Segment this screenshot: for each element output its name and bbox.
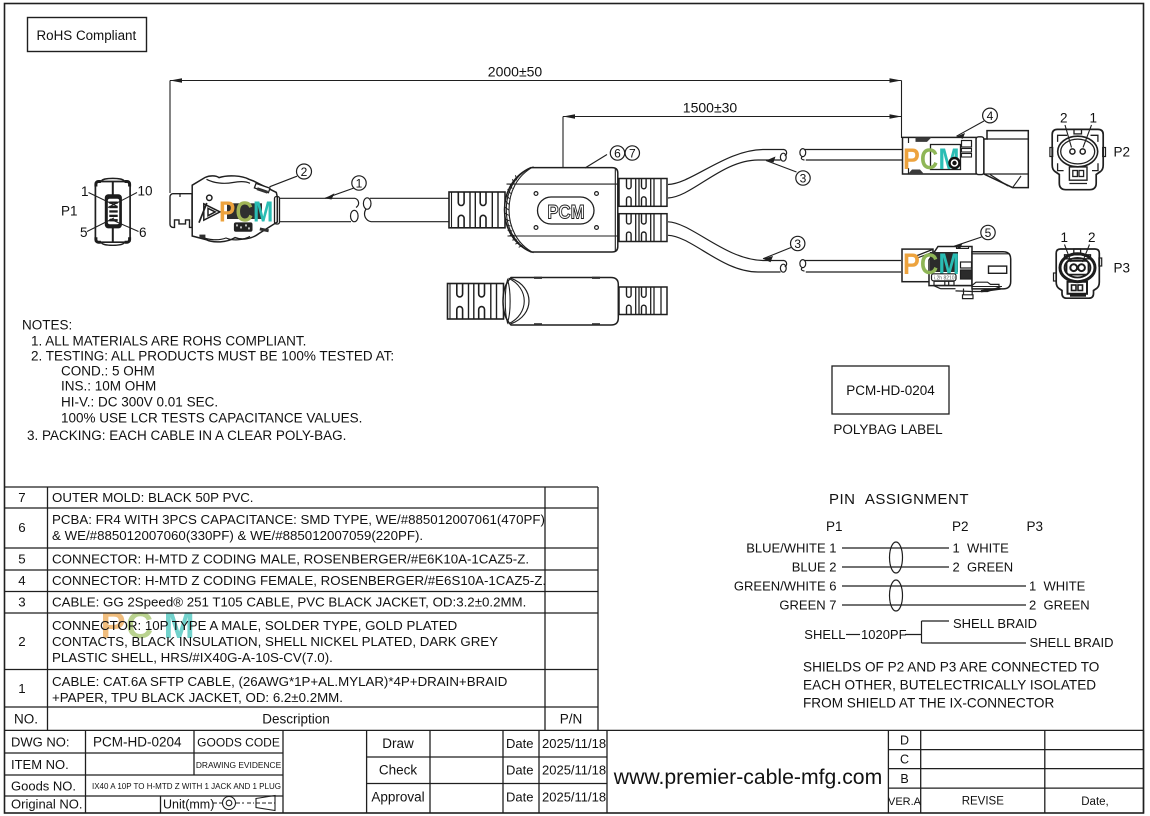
P3 face top bar [1065,255,1091,259]
svg-text:4: 4 [987,109,994,123]
svg-text:1: 1 [1061,230,1069,245]
IX end cap [275,197,280,225]
BOM row 5 [18,552,529,567]
svg-text:1020PF: 1020PF [861,627,907,642]
svg-text:POLYBAG LABEL: POLYBAG LABEL [833,422,943,437]
BOM row 1 [18,674,507,705]
BOM row 7 [18,490,253,505]
P3 bottom latch [934,281,1001,298]
svg-text:1. ALL MATERIALS ARE ROHS COMP: 1. ALL MATERIALS ARE ROHS COMPLIANT. [31,334,306,349]
side view body [503,278,618,326]
P3 face inner window with pins [1067,261,1089,275]
top relief [619,179,667,207]
side view right relief [619,287,667,315]
IX main body [192,176,277,242]
svg-text:BLUE 2: BLUE 2 [792,560,837,575]
svg-text:B: B [900,772,908,786]
svg-text:P1: P1 [61,204,78,219]
svg-text:2 GREEN: 2 GREEN [1029,598,1090,613]
top/bottom edge ticks [534,277,542,279]
svg-text:Date: Date [506,790,533,805]
IX top latch wave [207,179,251,183]
svg-text:NO.: NO. [14,712,38,727]
P3 face black ring [1060,254,1095,282]
wire lower right [371,221,449,223]
RoHS Compliant box [28,18,147,52]
P1 black insert [105,194,122,228]
callout 1 [325,176,366,200]
bottom relief [619,214,667,242]
P3 face outer shell [1056,249,1099,298]
svg-text:3: 3 [800,172,807,186]
BOM table grid [5,487,599,730]
svg-text:CABLE: GG 2Speed® 251 T105 CAB: CABLE: GG 2Speed® 251 T105 CABLE, PVC BL… [52,595,526,610]
svg-text:+PAPER, TPU BLACK JACKET, OD:: +PAPER, TPU BLACK JACKET, OD: 6.2±0.2MM. [52,690,343,705]
svg-text:2: 2 [18,634,25,649]
svg-text:PLASTIC SHELL, HRS/#IX40G-A-10: PLASTIC SHELL, HRS/#IX40G-A-10S-CV(7.0). [52,650,333,665]
svg-text:NOTES:: NOTES: [22,318,72,333]
PCM logo on IX [219,196,273,228]
small tick bottom-right [260,227,269,232]
svg-text:SHIELDS OF P2 AND P3 ARE CONNE: SHIELDS OF P2 AND P3 ARE CONNECTED TO [803,660,1099,675]
svg-text:Date: Date [506,736,533,751]
P3 small rects [961,262,972,268]
wire BLUE 2 to P2-2 GREEN [792,560,1014,575]
dark code patch behind PCM [227,203,262,219]
twist symbol pair 2 [890,580,903,611]
svg-text:GOODS CODE: GOODS CODE [197,736,280,750]
svg-text:100% USE LCR TESTS CAPACITANCE: 100% USE LCR TESTS CAPACITANCE VALUES. [61,411,362,426]
svg-text:1500±30: 1500±30 [683,100,738,116]
svg-text:10: 10 [138,184,153,199]
svg-text:GREEN/WHITE 6: GREEN/WHITE 6 [734,579,837,594]
svg-text:CONNECTOR: 10P TYPE A MALE, SO: CONNECTOR: 10P TYPE A MALE, SOLDER TYPE,… [52,618,457,633]
P2 small rects [962,141,972,148]
svg-text:GREEN 7: GREEN 7 [779,598,836,613]
IX bottom latch wave [200,236,250,239]
callout 4 [957,108,998,139]
P2 fakra ring detail [948,157,960,169]
svg-text:Date,: Date, [1081,796,1109,808]
svg-text:FROM SHIELD AT THE IX-CONNECTO: FROM SHIELD AT THE IX-CONNECTOR [803,696,1054,711]
P2 face side tabs [1050,148,1053,157]
P2 face outer shell [1052,129,1103,189]
screw dots [534,192,538,196]
svg-text:6: 6 [614,147,621,161]
P2 transition ring [976,137,984,175]
PCM logo on P3 [903,247,959,281]
svg-text:www.premier-cable-mfg.com: www.premier-cable-mfg.com [613,766,882,789]
svg-text:D: D [900,734,909,748]
BOM row 2 [18,618,498,665]
P2 inner mold line [931,145,961,170]
svg-text:1: 1 [81,184,89,199]
dimension 1500±30 [563,117,902,169]
svg-text:Approval: Approval [371,790,424,805]
svg-text:1 WHITE: 1 WHITE [1029,579,1086,594]
svg-text:INS.: 10M OHM: INS.: 10M OHM [61,379,156,394]
svg-text:P: P [903,247,920,281]
svg-text:2025/11/18: 2025/11/18 [542,736,606,751]
pin assignment diagram [826,491,1043,534]
svg-text:P/N: P/N [560,712,583,727]
svg-text:CONNECTOR: H-MTD Z CODING FEMA: CONNECTOR: H-MTD Z CODING FEMALE, ROSENB… [52,573,546,588]
svg-text:2: 2 [1060,111,1068,126]
wire GREEN/WHITE 6 to P3-1 WHITE [734,579,1086,594]
svg-text:1: 1 [18,681,25,696]
svg-text:6: 6 [18,520,25,535]
title block left labels [11,735,282,812]
svg-text:RoHS Compliant: RoHS Compliant [37,28,137,43]
svg-text:3: 3 [794,237,801,251]
svg-text:Draw: Draw [382,736,414,751]
svg-text:PCM-HD-0204: PCM-HD-0204 [846,383,935,398]
cable break left [355,198,359,207]
svg-text:3. PACKING: EACH CABLE IN A CL: 3. PACKING: EACH CABLE IN A CLEAR POLY-B… [27,428,346,443]
svg-text:SHELL BRAID: SHELL BRAID [953,616,1037,631]
P1 outer shell [95,182,130,243]
truncated cone symbol [247,796,275,811]
dome seam arc with knurl hatch [506,168,529,251]
P2 bottom key [1069,167,1087,180]
svg-text:C: C [900,753,909,767]
svg-text:SHELL BRAID: SHELL BRAID [1030,635,1114,650]
svg-text:C: C [920,142,938,176]
callout 6 7 [585,146,640,168]
P3 housing [929,247,972,286]
svg-text:5: 5 [985,226,992,240]
twist symbol pair 1 [890,542,903,573]
svg-text:SHELL: SHELL [804,627,845,642]
P2 housing [984,131,1028,188]
dimension 2000±50 [170,81,902,194]
svg-text:3: 3 [18,595,25,610]
callout 5 [954,225,995,249]
wire lower [280,221,352,223]
revision table labels [888,734,1109,809]
P3 label plate [932,274,957,281]
P3 face bottom key [1068,282,1088,294]
svg-text:Original NO.: Original NO. [11,797,83,812]
draw/check/approval labels [371,736,606,805]
P3 overmold boot [902,249,933,282]
svg-text:2025/11/18: 2025/11/18 [542,763,606,778]
svg-text:BLUE/WHITE 1: BLUE/WHITE 1 [746,541,836,556]
svg-text:i.2h 8210: i.2h 8210 [934,276,955,282]
shields note [803,660,1099,711]
svg-text:CABLE: CAT.6A SFTP CABLE, (26A: CABLE: CAT.6A SFTP CABLE, (26AWG*1P+AL.M… [52,674,507,689]
svg-text:6: 6 [139,225,147,240]
svg-text:EACH OTHER, BUTELECTRICALLY IS: EACH OTHER, BUTELECTRICALLY ISOLATED [803,678,1096,693]
P2 face ellipse ring [1058,136,1098,167]
wire GREEN 7 to P3-2 GREEN [779,598,1089,613]
callout 3 bottom [763,236,805,262]
svg-text:VER.A: VER.A [888,796,922,808]
shell to shell braid net [804,616,1113,650]
BOM watermark PCM [101,604,195,646]
svg-text:1: 1 [356,177,363,191]
BOM header row [14,712,582,727]
svg-text:DWG NO:: DWG NO: [11,735,70,750]
IX latch tab slot [254,183,270,192]
notes block [22,318,394,443]
P3 plug [972,252,1011,289]
svg-text:5: 5 [80,225,88,240]
svg-text:2: 2 [1088,230,1096,245]
svg-text:Unit(mm): Unit(mm) [163,798,214,812]
P2 pins [1070,149,1075,154]
svg-text:Description: Description [262,712,330,727]
svg-text:COND.: 5 OHM: COND.: 5 OHM [61,364,155,379]
side view left relief [448,284,504,320]
P2 face corner blocks [1058,135,1068,142]
svg-text:4: 4 [18,573,25,588]
third angle projection symbol [213,797,244,810]
wire upper [280,197,356,199]
BOM row 3 [18,595,526,610]
svg-text:1 WHITE: 1 WHITE [953,541,1010,556]
svg-text:DRAWING EVIDENCE: DRAWING EVIDENCE [196,760,282,770]
BOM row 4 [18,573,546,588]
svg-text:P2: P2 [1114,145,1131,160]
svg-text:CONTACTS, BLACK INSULATION, SH: CONTACTS, BLACK INSULATION, SHELL NICKEL… [52,634,498,649]
svg-text:PCM: PCM [547,201,584,222]
svg-text:2: 2 [301,165,308,179]
P1 top tab [102,178,125,181]
svg-text:7: 7 [18,490,25,505]
svg-text:P2: P2 [952,519,969,534]
svg-text:CONNECTOR: H-MTD Z CODING MALE: CONNECTOR: H-MTD Z CODING MALE, ROSENBER… [52,552,529,567]
svg-text:P3: P3 [1027,519,1044,534]
svg-text:Check: Check [379,763,418,778]
svg-text:P3: P3 [1114,261,1131,276]
small mark bottom-left [199,235,205,239]
PCM oval badge [538,197,595,224]
svg-text:ITEM NO.: ITEM NO. [11,757,69,772]
svg-text:5: 5 [18,552,25,567]
svg-text:IX40 A 10P TO H-MTD Z WITH 1 J: IX40 A 10P TO H-MTD Z WITH 1 JACK AND 1 … [92,782,281,791]
svg-text:P: P [219,196,235,228]
cable break right [363,198,371,209]
svg-text:OUTER MOLD: BLACK 50P PVC.: OUTER MOLD: BLACK 50P PVC. [52,490,254,505]
ix logo [207,195,212,200]
svg-text:7: 7 [629,147,636,161]
P3 face top key [1074,249,1081,253]
P1 bottom tab [102,243,125,246]
svg-text:2025/11/18: 2025/11/18 [542,790,606,805]
svg-text:2 GREEN: 2 GREEN [953,560,1014,575]
svg-text:2000±50: 2000±50 [488,64,543,80]
parting lines [507,183,618,185]
IX plug interface [170,194,192,228]
polybag label box PCM-HD-0204 [832,366,949,437]
svg-text:2. TESTING: ALL PRODUCTS MUST: 2. TESTING: ALL PRODUCTS MUST BE 100% TE… [31,349,394,364]
P3 dark window [930,252,958,272]
P2 overmold [903,137,977,174]
title block grid [5,730,1144,812]
svg-text:M: M [253,196,273,228]
svg-text:HI-V.: DC 300V 0.01 SEC.: HI-V.: DC 300V 0.01 SEC. [61,395,218,410]
P1 center slot lines [112,182,114,196]
svg-text:1: 1 [1090,111,1098,126]
wire BLUE/WHITE 1 to P2-1 WHITE [746,541,1009,556]
svg-text:P1: P1 [826,519,843,534]
svg-text:PIN ASSIGNMENT: PIN ASSIGNMENT [829,491,969,508]
P2 face top key notch [1074,129,1082,134]
svg-text:P: P [903,142,920,176]
svg-text:Goods NO.: Goods NO. [11,779,76,794]
PCM logo on P2 [903,142,959,176]
svg-text:PCBA: FR4 WITH 3PCS CAPACITANC: PCBA: FR4 WITH 3PCS CAPACITANCE: SMD TYP… [52,512,545,527]
callout 2 [270,164,312,187]
callout 3 top [766,157,810,186]
svg-text:Date: Date [506,763,533,778]
svg-text:REVISE: REVISE [962,796,1005,808]
wire upper right [370,197,449,199]
svg-text:& WE/#885012007060(330PF) & WE: & WE/#885012007060(330PF) & WE/#88501200… [52,528,423,543]
BOM row 6 [18,512,545,543]
svg-text:PCM-HD-0204: PCM-HD-0204 [93,735,182,750]
P3 face side bumps [1054,273,1057,281]
QR code box [234,222,253,231]
